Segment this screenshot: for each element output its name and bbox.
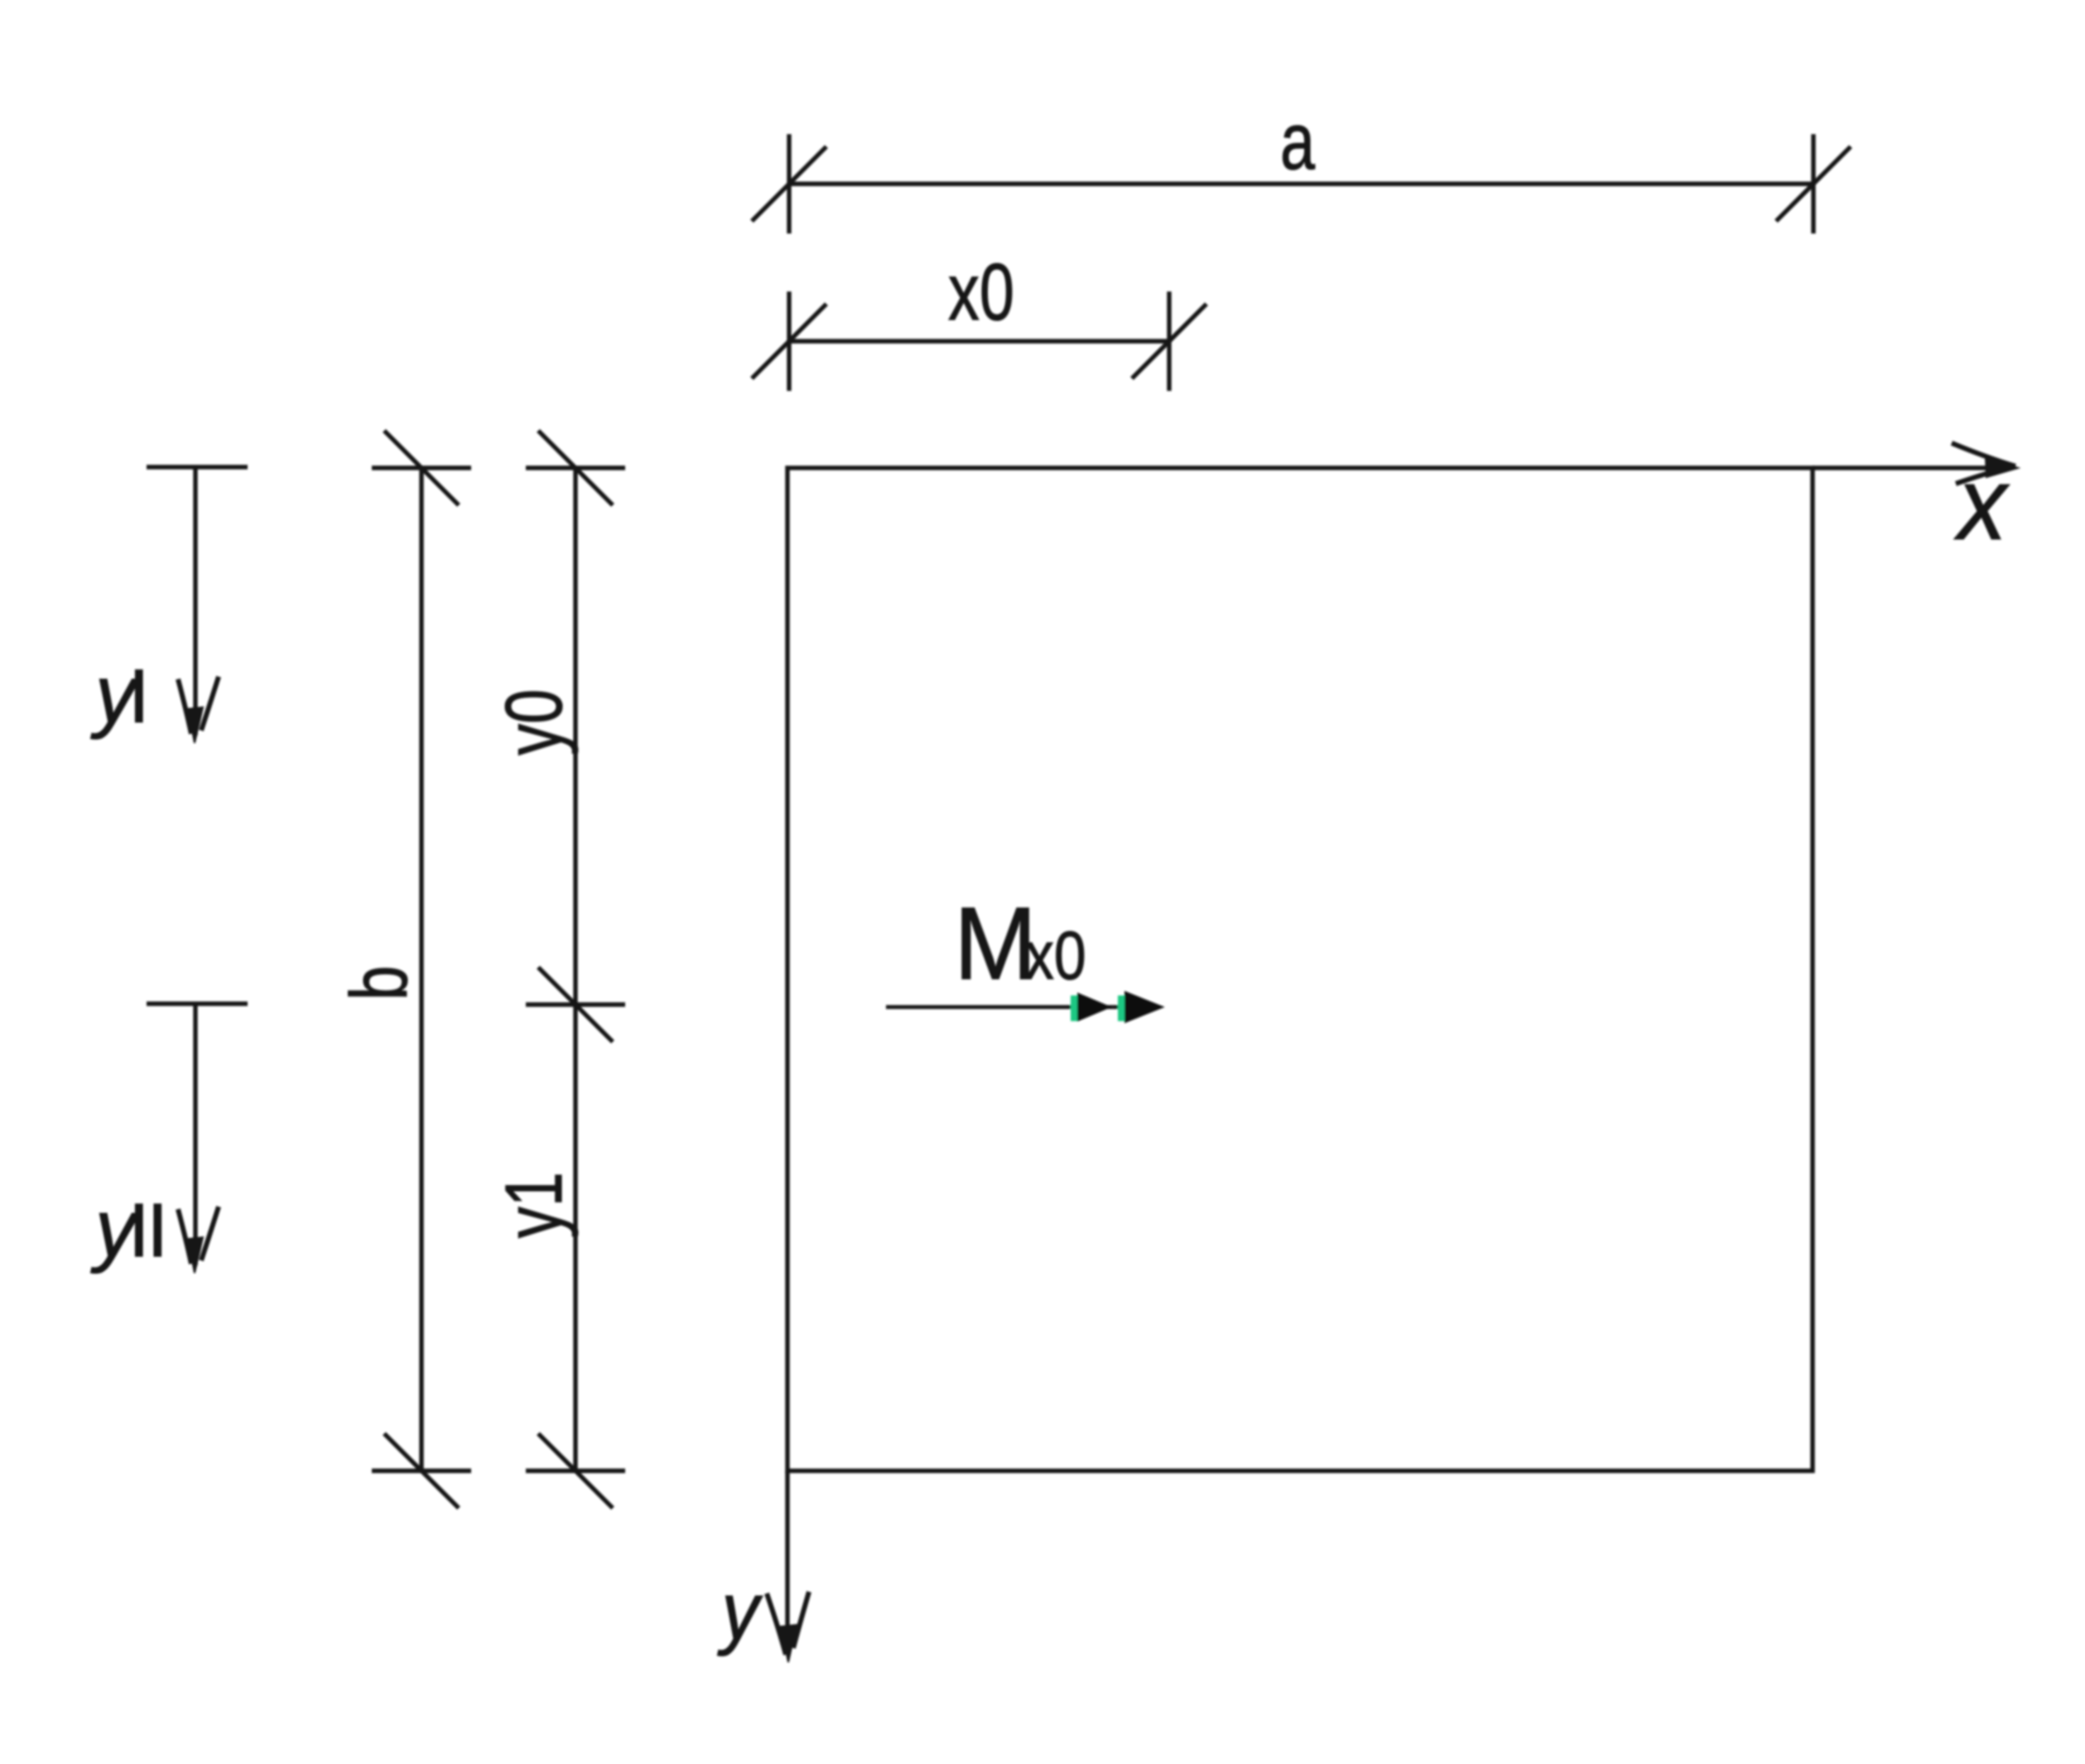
arrow yI: top bar [147, 465, 248, 469]
dimension x0: left tick [752, 292, 826, 391]
moment Mx0: arrowhead 1 [1078, 994, 1110, 1020]
dimension b: bottom tick [372, 1434, 471, 1508]
dimension a: right tick [1776, 134, 1851, 234]
moment Mx0: arrowhead 2 [1125, 992, 1163, 1022]
arrow yII: top bar [147, 1001, 248, 1005]
dimension a: left tick [752, 134, 826, 234]
y axis line [785, 1471, 789, 1655]
arrow yII: head [178, 1207, 219, 1273]
dimension a: line [789, 181, 1813, 186]
dimension x0: right tick [1132, 292, 1206, 391]
svg-text:I: I [128, 654, 150, 739]
moment Mx0: green bar 1 [1071, 995, 1078, 1021]
y axis arrowhead [767, 1592, 809, 1662]
svg-text:x: x [1954, 446, 2010, 561]
svg-text:x0: x0 [1025, 918, 1086, 994]
dimension b: top tick [372, 431, 471, 505]
svg-text:M: M [954, 885, 1037, 1000]
svg-text:II: II [128, 1188, 166, 1273]
svg-text:a: a [1280, 97, 1316, 186]
dimension y0/y1: middle tick [526, 967, 625, 1042]
arrow yI: head [178, 677, 219, 743]
dimension y0/y1: line [573, 468, 577, 1471]
svg-text:y0: y0 [489, 689, 579, 755]
moment Mx0: green bar 2 [1118, 995, 1125, 1021]
dimension y0/y1: top tick [526, 431, 625, 505]
arrow yI: stem [193, 467, 197, 735]
moment Mx0: line [886, 1005, 1128, 1010]
arrow yII: stem [193, 1004, 197, 1265]
x axis line [1813, 465, 2010, 470]
svg-text:y1: y1 [489, 1172, 579, 1238]
plate rectangle (plate a x b) [787, 468, 1813, 1471]
dimension x0: line [789, 339, 1169, 343]
dimension b: line [419, 468, 423, 1471]
svg-text:b: b [335, 966, 424, 1000]
svg-text:x0: x0 [948, 248, 1014, 337]
svg-text:y: y [717, 1566, 763, 1656]
dimension y0/y1: bottom tick [526, 1434, 625, 1508]
x axis arrowhead [1952, 443, 2018, 484]
